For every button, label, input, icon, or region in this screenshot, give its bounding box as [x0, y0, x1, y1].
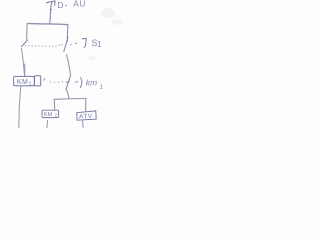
contact km1 terminal tick: [66, 81, 70, 84]
svg-text:km: km: [86, 78, 97, 88]
contact km1 operator arc: [80, 78, 82, 88]
svg-text:D: D: [57, 0, 63, 10]
label KM2: [44, 112, 58, 118]
disconnector S1 left pole blade: [21, 40, 27, 47]
svg-text:1: 1: [100, 85, 103, 91]
label KM1: [17, 79, 32, 87]
wire: drop to KM2 coil: [53, 99, 55, 110]
wire: top bus: [27, 23, 68, 24]
svg-text:ATV: ATV: [79, 113, 93, 121]
wire: S1 left pole upper: [26, 24, 29, 40]
wire: km1 contact down to node: [66, 90, 69, 99]
faint paper smudges: [88, 8, 122, 61]
svg-text:1: 1: [29, 81, 32, 87]
wire: below ATV: [81, 120, 84, 128]
svg-text:KM: KM: [44, 112, 53, 118]
wire: S1 left pole lower: [21, 48, 24, 75]
contact km1 blade: [66, 77, 70, 90]
wire: S1 right pole lower: [67, 55, 71, 77]
wire: S1 right pole upper: [66, 25, 69, 42]
svg-text:KM: KM: [17, 79, 28, 86]
wire: drop to ATV: [85, 99, 87, 111]
contactor coil KM2 box: [42, 110, 59, 117]
contact km1 dash: [75, 81, 78, 83]
mechanical link dashed KM1 coil to km1 contact: [44, 79, 45, 81]
supply arrow (incoming feeder): [46, 1, 55, 24]
wire: bottom bus: [54, 98, 86, 101]
drive unit ATV box: [77, 111, 97, 120]
svg-text:AU: AU: [73, 0, 86, 9]
svg-text:1: 1: [97, 40, 102, 49]
contactor coil KM1 box: [14, 76, 35, 85]
paper background: [0, 0, 128, 128]
KM1 auxiliary box: [34, 76, 40, 86]
wire: below KM1 to sheet bottom: [19, 86, 21, 128]
label S1 with dash and bracket: [75, 42, 77, 44]
wire: drop into KM1 coil: [24, 64, 26, 76]
disconnector S1 right pole blade: [64, 37, 68, 52]
mechanical link dashed between S1 poles: [25, 44, 72, 47]
label km1: [86, 78, 103, 91]
label D AU: [57, 0, 86, 10]
wire: below KM2: [46, 121, 49, 128]
